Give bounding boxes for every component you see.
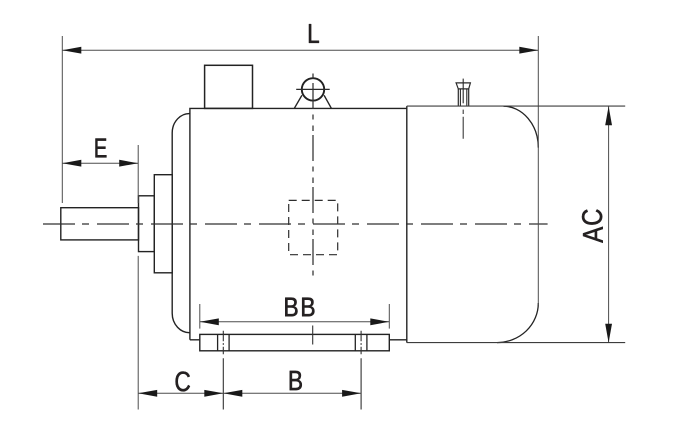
L extension line right / body edge — [537, 36, 539, 305]
bearing cap — [154, 175, 172, 273]
label C — [176, 372, 190, 392]
arrowhead L left — [62, 47, 81, 54]
C extension line left — [137, 256, 139, 410]
arrowhead BB left — [200, 318, 219, 325]
arrowhead BB right — [370, 318, 389, 325]
foot bolt hole right — [355, 334, 367, 350]
terminal box — [205, 65, 253, 108]
shaft shoulder hub — [139, 196, 155, 252]
stator frame (main body left section) — [190, 108, 407, 339]
vertical centerline tick at foot — [312, 326, 314, 345]
E extension line right — [137, 145, 139, 203]
L extension line left — [61, 36, 63, 203]
arrowhead C right — [204, 390, 223, 397]
mounting foot — [200, 334, 389, 350]
arrowhead AC bottom — [605, 324, 612, 343]
dimension B line — [223, 392, 361, 394]
foot bolt hole left — [218, 334, 230, 350]
lifting eyebolt ring — [302, 78, 324, 100]
bolt hole centerline right — [360, 331, 362, 410]
arrowhead L right — [519, 47, 538, 54]
dimension AC line — [608, 106, 610, 342]
arrowhead E right — [119, 160, 138, 167]
label L — [309, 24, 319, 43]
inspection hole (hidden, dashed square) — [289, 200, 338, 254]
fan cowl rounded corner top-right — [504, 106, 539, 147]
arrowhead E left — [62, 160, 81, 167]
bolt hole centerline left — [222, 331, 224, 410]
label BB — [285, 298, 297, 317]
arrowhead C left — [138, 390, 157, 397]
arrowhead B right — [342, 390, 361, 397]
arrowhead B left — [223, 390, 242, 397]
label B — [290, 371, 302, 390]
fan cowl (right body section) left edge — [406, 106, 408, 343]
horizontal shaft centerline — [43, 223, 548, 225]
vertical centerline through eyebolt — [312, 74, 314, 281]
dimension E line — [62, 162, 138, 164]
AC extension line top / fan cowl top edge — [407, 105, 625, 107]
AC extension line bottom / fan cowl bottom edge — [407, 342, 625, 344]
BB extension line right — [388, 304, 390, 329]
dimension C line — [138, 392, 223, 394]
eyebolt cross bar — [296, 88, 330, 90]
grease nipple hidden center line below — [462, 110, 464, 139]
dimension BB line — [200, 321, 389, 323]
grease nipple inner lines — [460, 89, 466, 106]
eyebolt left leg — [294, 95, 302, 108]
dimension L line — [62, 49, 538, 51]
grease nipple head — [456, 83, 470, 89]
shaft — [61, 208, 139, 240]
label AC (rotated) — [582, 210, 603, 243]
arrowhead AC top — [605, 106, 612, 125]
eyebolt right leg — [324, 95, 331, 108]
grease nipple center line — [462, 79, 464, 104]
fan cowl rounded corner bottom-right — [497, 303, 538, 343]
grease nipple body — [458, 89, 468, 106]
label E — [96, 139, 107, 158]
end shield (drive end) rounded outline — [172, 114, 190, 333]
BB extension line left — [199, 304, 201, 329]
